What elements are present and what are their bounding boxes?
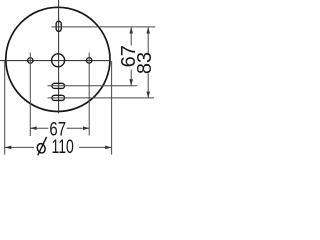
vertical centerline [58, 0, 60, 113]
arrow right dim67h [83, 126, 89, 130]
dimension line 67 horizontal [30, 127, 48, 129]
slot 2 horizontal centerline / extension line [48, 97, 155, 99]
right hole vertical centerline / extension line [88, 53, 90, 136]
label phi symbol [36, 137, 47, 155]
arrow up dim67v [129, 27, 133, 33]
slot 1 horizontal centerline / extension line [48, 85, 138, 87]
svg-text:83: 83 [134, 52, 156, 74]
dimension line 83 vertical [147, 27, 149, 53]
center hole [52, 54, 65, 67]
svg-text:110: 110 [52, 136, 74, 158]
arrow down dim83v [146, 92, 150, 98]
arrow left dim67h [30, 126, 36, 130]
slot hole 1 [52, 83, 65, 88]
right mounting hole [86, 58, 92, 64]
horizontal centerline [0, 60, 110, 62]
slot hole 2 [52, 95, 65, 100]
arrow left phi110 [5, 146, 11, 150]
plate outline circle φ110 [6, 7, 110, 111]
top slotted hole [56, 21, 61, 31]
left mounting hole [28, 58, 34, 64]
arrow up dim83v [146, 27, 150, 33]
arrow down dim67v [129, 79, 133, 85]
dimension line 67 vertical [130, 27, 132, 45]
left hole vertical centerline / extension line [29, 53, 31, 137]
top hole horizontal centerline / extension line [52, 26, 156, 28]
phi110 right extension line [111, 61, 113, 155]
arrow right phi110 [105, 146, 111, 150]
phi110 left extension line [4, 61, 6, 155]
phi110 dimension line [5, 146, 34, 148]
